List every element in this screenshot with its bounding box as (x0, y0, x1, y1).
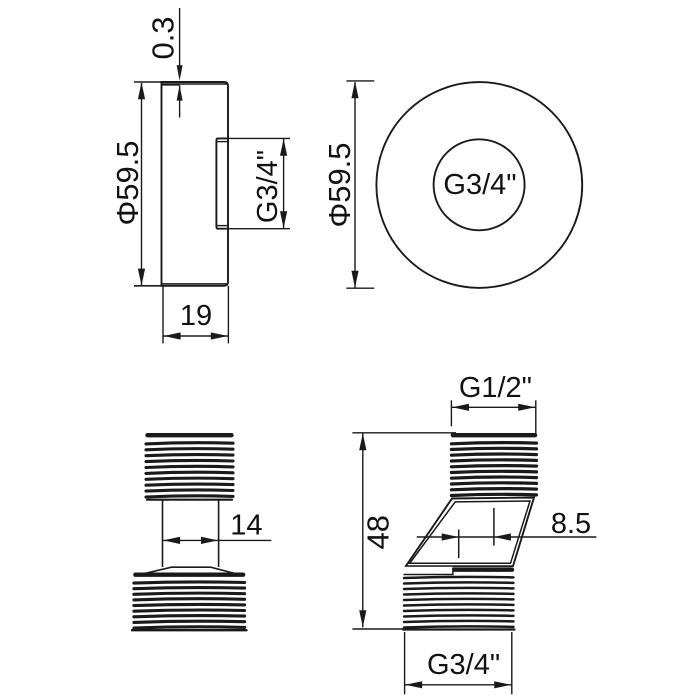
offset body parallelogram inner line (410, 501, 530, 563)
dimension 14 (163, 539, 272, 541)
dimension 48 (352, 432, 456, 434)
dimension Phi59.5 fig2 (346, 80, 374, 82)
svg-text:0.3: 0.3 (146, 16, 181, 59)
flange bottom edge thick lip (162, 283, 229, 285)
svg-text:Φ59.5: Φ59.5 (110, 140, 145, 225)
extension line bottom-left (134, 285, 162, 287)
threaded end G1/2 fig4 top (453, 433, 535, 437)
svg-text:14: 14 (230, 510, 262, 542)
dimension G3/4 inch fig1 (216, 137, 290, 139)
svg-text:48: 48 (361, 515, 396, 549)
svg-text:19: 19 (180, 300, 212, 332)
thread start notch fig4 (403, 567, 453, 574)
svg-text:G3/4": G3/4" (252, 150, 284, 223)
flange top edge thick lip (162, 83, 229, 85)
threaded stub G3/4 fig3 bottom (135, 573, 243, 577)
offset body parallelogram outer (406, 498, 534, 567)
svg-text:Φ59.5: Φ59.5 (322, 142, 357, 227)
svg-text:G3/4": G3/4" (443, 169, 516, 201)
dimension 8.5 (417, 536, 597, 538)
boss thread inner line top (216, 141, 228, 143)
threaded boss G3/4 side view (216, 138, 228, 228)
boss thread inner line bottom (216, 225, 228, 227)
dimension G1/2 inch (450, 400, 452, 426)
escutcheon front view outer circle (376, 82, 582, 288)
centerline tick top axis (493, 508, 495, 546)
inner circle thread bore (434, 139, 525, 230)
fig3 bottom stub base line (132, 629, 247, 631)
connector line left (162, 499, 164, 567)
threaded stub G3/4 fig3 bottom chamfer shoulder (134, 567, 245, 576)
centerline tick bottom axis (458, 530, 460, 559)
fig3 top stub base line (147, 499, 232, 501)
dimension 19 (162, 286, 164, 344)
svg-text:G1/2": G1/2" (459, 372, 532, 404)
dimension G3/4 inch fig4 (404, 632, 406, 694)
dimension Phi59.5 fig1 (141, 83, 143, 285)
threaded stub G1/2 fig3 top (148, 433, 232, 437)
extension line top-left (134, 81, 162, 83)
fig4 bottom base line (403, 628, 515, 630)
threaded end G3/4 fig4 bottom (406, 568, 513, 572)
dimension 0.3 (179, 8, 181, 66)
0.3 offset line (162, 84, 180, 86)
svg-text:8.5: 8.5 (551, 508, 591, 540)
svg-text:G3/4": G3/4" (427, 649, 500, 681)
connector line right (218, 499, 220, 567)
flange plate side view outline (162, 82, 229, 286)
